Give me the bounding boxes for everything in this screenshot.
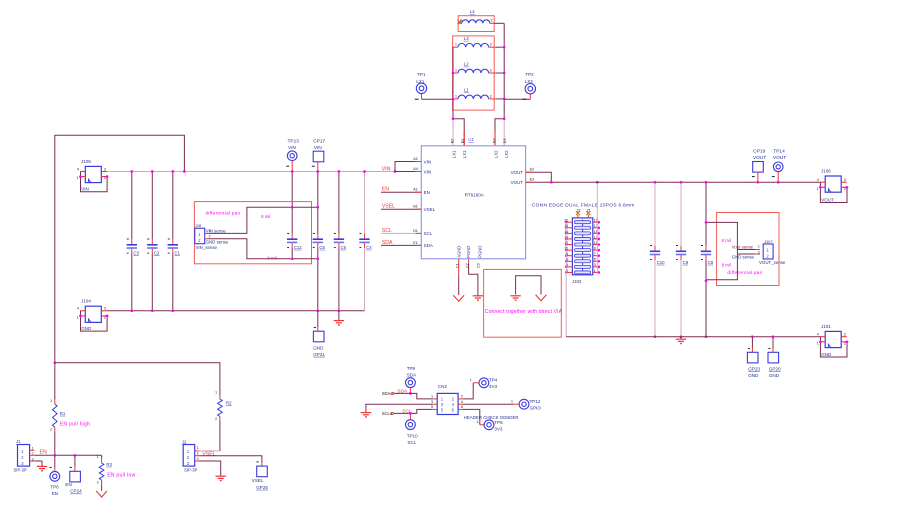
svg-text:C9: C9 <box>683 260 689 265</box>
svg-text:2: 2 <box>209 235 211 239</box>
svg-text:1: 1 <box>431 394 433 398</box>
svg-text:VIN: VIN <box>424 169 432 174</box>
svg-text:J104: J104 <box>81 299 91 304</box>
svg-text:VOUT: VOUT <box>511 170 524 175</box>
svg-text:B1: B1 <box>413 204 418 208</box>
svg-text:SDA: SDA <box>407 373 417 378</box>
svg-text:EN pull high: EN pull high <box>60 422 91 428</box>
svg-text:VIN: VIN <box>382 166 391 172</box>
svg-text:L3: L3 <box>464 36 469 41</box>
svg-text:GND: GND <box>81 326 92 331</box>
svg-text:3: 3 <box>431 400 433 404</box>
svg-text:TP10: TP10 <box>407 433 418 438</box>
svg-text:B2: B2 <box>451 139 455 144</box>
svg-text:4: 4 <box>817 333 819 337</box>
svg-text:8 mil: 8 mil <box>261 214 270 219</box>
svg-text:1: 1 <box>455 94 457 98</box>
svg-text:TP1: TP1 <box>417 72 426 77</box>
svg-text:2: 2 <box>490 43 492 47</box>
svg-text:A2: A2 <box>413 157 418 161</box>
svg-text:A4: A4 <box>413 167 418 171</box>
svg-text:J105: J105 <box>81 159 91 164</box>
svg-text:20: 20 <box>564 219 568 223</box>
svg-text:EN: EN <box>382 187 389 193</box>
svg-text:3: 3 <box>844 178 846 182</box>
svg-text:CP24: CP24 <box>70 489 82 494</box>
svg-text:2: 2 <box>50 428 52 432</box>
svg-text:SIP-3P: SIP-3P <box>184 467 197 472</box>
svg-text:C1: C1 <box>174 250 180 255</box>
svg-text:1: 1 <box>455 69 457 73</box>
svg-text:L2: L2 <box>464 62 469 67</box>
svg-text:1: 1 <box>511 399 513 403</box>
svg-text:TP9: TP9 <box>407 366 416 371</box>
svg-text:EN pull low: EN pull low <box>107 472 135 478</box>
svg-text:VSEL: VSEL <box>424 207 436 212</box>
svg-text:VIN: VIN <box>314 145 323 151</box>
svg-text:Vout sense: Vout sense <box>732 244 754 249</box>
svg-text:2: 2 <box>490 69 492 73</box>
svg-text:VSEL: VSEL <box>252 478 264 483</box>
svg-text:1: 1 <box>758 245 760 249</box>
svg-text:Connect together with direct V: Connect together with direct VIA <box>485 309 563 315</box>
svg-text:4: 4 <box>461 400 463 404</box>
svg-text:GND: GND <box>821 352 832 357</box>
svg-text:TP2: TP2 <box>525 72 534 77</box>
svg-text:2: 2 <box>104 316 106 320</box>
svg-text:CONN EDGE DUAL FMALE 20POS 0.8: CONN EDGE DUAL FMALE 20POS 0.8mm <box>532 203 635 209</box>
svg-text:C5: C5 <box>319 245 325 250</box>
svg-text:J107: J107 <box>764 239 772 244</box>
svg-text:L1: L1 <box>464 88 469 93</box>
svg-text:3: 3 <box>844 333 846 337</box>
svg-text:VIN_sense: VIN_sense <box>196 245 218 250</box>
svg-text:VIN sense: VIN sense <box>206 228 227 233</box>
svg-text:B3: B3 <box>461 139 465 144</box>
svg-text:C10: C10 <box>657 260 665 265</box>
svg-text:1: 1 <box>32 446 34 450</box>
svg-text:5: 5 <box>431 405 433 409</box>
svg-text:CP19: CP19 <box>753 148 765 154</box>
svg-text:6: 6 <box>461 405 463 409</box>
svg-text:C2: C2 <box>154 250 160 255</box>
svg-text:1: 1 <box>77 176 79 180</box>
svg-text:2: 2 <box>461 394 463 398</box>
svg-text:SDA: SDA <box>382 240 393 246</box>
svg-text:TP4: TP4 <box>489 378 498 383</box>
svg-text:J28: J28 <box>195 223 201 228</box>
svg-text:AGND: AGND <box>456 246 461 258</box>
svg-text:1: 1 <box>476 420 478 424</box>
svg-text:TP6: TP6 <box>50 485 59 490</box>
svg-text:PGND: PGND <box>478 246 483 258</box>
svg-text:2: 2 <box>758 251 760 255</box>
svg-text:R2: R2 <box>226 400 232 405</box>
svg-text:2: 2 <box>844 341 846 345</box>
svg-text:A1: A1 <box>413 188 418 192</box>
svg-text:CP17: CP17 <box>313 139 325 145</box>
svg-text:GP25: GP25 <box>256 485 268 490</box>
svg-text:SIP-3P: SIP-3P <box>14 468 27 473</box>
svg-text:PGND: PGND <box>466 246 471 258</box>
svg-text:EN: EN <box>52 491 58 496</box>
svg-text:GND: GND <box>313 345 324 350</box>
svg-text:1: 1 <box>197 446 199 450</box>
svg-text:VIN: VIN <box>81 187 89 192</box>
svg-text:C4: C4 <box>366 245 372 250</box>
svg-text:differential pair: differential pair <box>727 270 763 275</box>
svg-text:VIN: VIN <box>424 160 432 165</box>
svg-text:LX1: LX1 <box>452 150 457 158</box>
svg-text:1: 1 <box>455 43 457 47</box>
svg-text:VOUT: VOUT <box>773 155 786 161</box>
svg-text:4: 4 <box>77 167 79 171</box>
svg-text:J101: J101 <box>821 324 831 329</box>
svg-text:1: 1 <box>50 399 52 403</box>
svg-text:C6: C6 <box>341 245 347 250</box>
svg-text:3: 3 <box>104 307 106 311</box>
svg-text:2: 2 <box>197 452 199 456</box>
svg-text:C12: C12 <box>294 245 302 250</box>
svg-text:1: 1 <box>97 455 99 459</box>
svg-text:R3: R3 <box>106 462 112 467</box>
svg-text:1: 1 <box>215 391 217 395</box>
svg-text:SCL: SCL <box>424 231 433 236</box>
svg-text:GP21: GP21 <box>313 352 325 357</box>
svg-text:3V3: 3V3 <box>494 426 503 431</box>
svg-text:D2: D2 <box>493 138 497 143</box>
svg-text:4: 4 <box>817 178 819 182</box>
svg-text:RT6160A: RT6160A <box>465 192 484 197</box>
svg-text:GND: GND <box>748 373 759 378</box>
svg-text:2: 2 <box>104 176 106 180</box>
svg-text:EN: EN <box>40 449 47 455</box>
svg-text:VOUT: VOUT <box>821 197 834 202</box>
svg-text:8 mil: 8 mil <box>722 262 731 267</box>
svg-text:E3: E3 <box>530 178 535 182</box>
svg-text:2: 2 <box>97 481 99 485</box>
svg-text:4: 4 <box>77 307 79 311</box>
svg-text:3: 3 <box>197 457 199 461</box>
svg-text:2: 2 <box>844 187 846 191</box>
svg-text:GND sense: GND sense <box>732 255 755 260</box>
svg-text:E1: E1 <box>413 241 418 245</box>
svg-text:3V3: 3V3 <box>489 384 498 389</box>
svg-text:3: 3 <box>104 167 106 171</box>
svg-text:2: 2 <box>490 94 492 98</box>
svg-text:L4: L4 <box>470 9 475 14</box>
svg-text:TP13: TP13 <box>288 139 300 145</box>
svg-text:VSEL: VSEL <box>382 204 395 210</box>
svg-text:SDA: SDA <box>424 243 433 248</box>
svg-text:GP20: GP20 <box>769 366 781 371</box>
svg-text:2: 2 <box>491 19 493 23</box>
svg-text:TP14: TP14 <box>773 148 785 154</box>
svg-text:2: 2 <box>215 417 217 421</box>
svg-text:SCL: SCL <box>382 228 392 234</box>
svg-text:GP23: GP23 <box>748 366 760 371</box>
svg-text:LX2: LX2 <box>504 150 509 158</box>
svg-text:GND sense: GND sense <box>206 239 229 244</box>
svg-text:1: 1 <box>817 341 819 345</box>
svg-text:5: 5 <box>594 258 596 262</box>
svg-text:LX2: LX2 <box>494 150 499 158</box>
svg-text:J1: J1 <box>16 439 21 444</box>
svg-text:J106: J106 <box>821 168 831 173</box>
svg-text:TP5: TP5 <box>494 420 503 425</box>
svg-text:C8: C8 <box>708 260 714 265</box>
svg-text:C3: C3 <box>133 250 139 255</box>
svg-text:C3: C3 <box>477 263 481 268</box>
svg-text:TP12: TP12 <box>530 399 541 404</box>
svg-text:1: 1 <box>77 316 79 320</box>
svg-text:GND: GND <box>769 373 780 378</box>
svg-text:8 mil: 8 mil <box>267 255 276 260</box>
svg-text:EN: EN <box>65 482 71 487</box>
svg-text:LX2: LX2 <box>525 79 534 84</box>
svg-text:9: 9 <box>594 247 596 251</box>
svg-text:1: 1 <box>460 19 462 23</box>
svg-text:LX1: LX1 <box>462 150 467 158</box>
svg-text:VSEL: VSEL <box>202 451 215 457</box>
svg-text:J2: J2 <box>182 440 187 445</box>
svg-text:VIN: VIN <box>288 145 297 151</box>
svg-text:7: 7 <box>594 252 596 256</box>
svg-text:J102: J102 <box>572 279 582 284</box>
svg-text:E2: E2 <box>530 167 535 171</box>
svg-text:3: 3 <box>594 263 596 267</box>
svg-text:VOUT: VOUT <box>753 155 766 161</box>
svg-text:D3: D3 <box>503 138 507 143</box>
svg-text:8 mil: 8 mil <box>722 238 731 243</box>
svg-text:HEADER CHECK GENDER: HEADER CHECK GENDER <box>464 415 519 420</box>
svg-text:CN2: CN2 <box>438 384 448 389</box>
svg-text:1: 1 <box>817 187 819 191</box>
svg-text:R1: R1 <box>60 411 66 416</box>
svg-text:GPIO: GPIO <box>530 405 542 410</box>
svg-text:differential pair: differential pair <box>205 210 241 215</box>
svg-text:EN: EN <box>424 190 430 195</box>
svg-text:VOUT: VOUT <box>511 180 524 185</box>
svg-text:1: 1 <box>594 269 596 273</box>
svg-text:1: 1 <box>470 378 472 382</box>
svg-text:D1: D1 <box>413 229 418 233</box>
svg-text:SCL: SCL <box>407 440 416 445</box>
svg-text:VOUT_sense: VOUT_sense <box>759 260 786 265</box>
svg-text:U1: U1 <box>468 137 474 142</box>
